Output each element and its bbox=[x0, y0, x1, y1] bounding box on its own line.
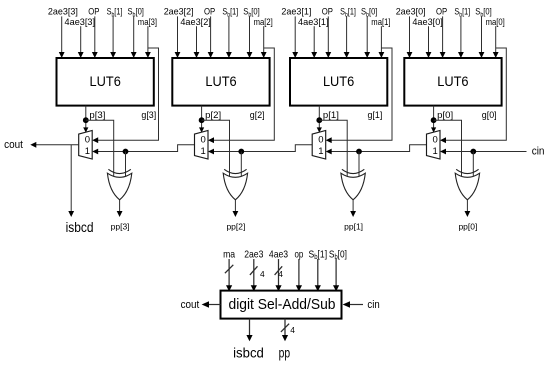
svg-text:OP: OP bbox=[204, 7, 215, 17]
wire 2ae3[1] into LUT6 input bbox=[292, 16, 298, 58]
wire OP into LUT6 input bbox=[440, 16, 446, 58]
wire ma[2] branch / g[2] to mux input 0 bbox=[208, 48, 274, 143]
mux (bit 3) bbox=[79, 131, 93, 160]
wire carry from bit 2 mux output to bit 3 mux input 1 bbox=[92, 145, 194, 155]
wire Sb[1] into LUT6 input bbox=[344, 16, 350, 58]
svg-text:4ae3[1]: 4ae3[1] bbox=[298, 17, 329, 27]
svg-text:Sb[1]: Sb[1] bbox=[454, 7, 470, 19]
wire OP into LUT6 input bbox=[325, 16, 331, 58]
wire ma[0] branch / g[0] to mux input 0 bbox=[440, 48, 506, 143]
junction carry to XOR (bit 0) bbox=[470, 149, 476, 155]
svg-text:cin: cin bbox=[367, 299, 379, 311]
junction p[0] bbox=[431, 117, 437, 123]
svg-text:g[3]: g[3] bbox=[141, 110, 156, 120]
svg-text:2ae3[2]: 2ae3[2] bbox=[164, 7, 194, 17]
wire carry from bit 0 mux output to bit 1 mux input 1 bbox=[326, 145, 427, 155]
wire 4ae3[3] into LUT6 input bbox=[78, 26, 84, 58]
wire ma[0] into LUT6 input bbox=[493, 26, 499, 58]
wire pp[1] from XOR output bbox=[350, 200, 356, 217]
svg-text:digit Sel-Add/Sub: digit Sel-Add/Sub bbox=[229, 296, 336, 313]
svg-text:0: 0 bbox=[433, 135, 438, 146]
LUT6 (bit 2) bbox=[172, 58, 269, 106]
wire 4ae3[2] into LUT6 input bbox=[194, 26, 200, 58]
svg-text:4: 4 bbox=[290, 325, 295, 335]
svg-text:Sb[1]: Sb[1] bbox=[107, 7, 123, 19]
junction carry to XOR (bit 1) bbox=[356, 149, 362, 155]
svg-text:g[2]: g[2] bbox=[250, 110, 265, 120]
wire ma[3] branch / g[3] to mux input 0 bbox=[92, 48, 158, 143]
mux (bit 0) bbox=[427, 131, 441, 160]
svg-text:0: 0 bbox=[318, 135, 323, 146]
wire Sb[0] into Sel-Add/Sub bbox=[333, 259, 339, 291]
wire ma[1] branch / g[1] to mux input 0 bbox=[326, 48, 392, 143]
wire cout from bit 3 mux output bbox=[30, 142, 78, 148]
svg-text:4ae3[0]: 4ae3[0] bbox=[412, 17, 443, 27]
svg-text:g[0]: g[0] bbox=[482, 110, 497, 120]
wire 4ae3 into Sel-Add/Sub bbox=[275, 259, 281, 291]
wire Sb[1] into LUT6 input bbox=[110, 16, 116, 58]
svg-text:pp[2]: pp[2] bbox=[226, 221, 245, 231]
wire ma[1] into LUT6 input bbox=[379, 26, 385, 58]
svg-text:pp[0]: pp[0] bbox=[458, 221, 477, 231]
wire Sb[0] into LUT6 input bbox=[247, 16, 253, 58]
wire carry from bit 1 mux output to bit 2 mux input 1 bbox=[208, 145, 312, 155]
mux (bit 1) bbox=[312, 131, 326, 160]
wire p[3] from LUT6 to mux select bbox=[83, 106, 88, 133]
svg-text:ma[0]: ma[0] bbox=[486, 17, 505, 27]
wire Sb[0] into LUT6 input bbox=[131, 16, 137, 58]
wire pp (bottom) bbox=[282, 319, 288, 342]
wire p[1] branch to XOR input bbox=[319, 120, 347, 176]
wire 4ae3[1] into LUT6 input bbox=[311, 26, 317, 58]
svg-text:ma[1]: ma[1] bbox=[371, 17, 390, 27]
wire Sb[1] into LUT6 input bbox=[226, 16, 232, 58]
svg-text:g[1]: g[1] bbox=[368, 110, 383, 120]
wire OP into LUT6 input bbox=[92, 16, 98, 58]
svg-text:4: 4 bbox=[260, 269, 265, 279]
svg-text:LUT6: LUT6 bbox=[90, 74, 121, 90]
svg-text:cin: cin bbox=[532, 146, 545, 158]
wire 2ae3[2] into LUT6 input bbox=[175, 16, 181, 58]
wire Sb[1] into Sel-Add/Sub bbox=[315, 259, 321, 291]
junction carry to XOR (bit 3) bbox=[123, 149, 129, 155]
svg-text:pp: pp bbox=[279, 344, 291, 360]
svg-text:OP: OP bbox=[88, 7, 99, 17]
wire ma[2] into LUT6 input bbox=[261, 26, 267, 58]
svg-text:4ae3[3]: 4ae3[3] bbox=[65, 17, 96, 27]
svg-text:p[2]: p[2] bbox=[205, 110, 221, 120]
svg-text:ma[3]: ma[3] bbox=[138, 17, 157, 27]
svg-text:cout: cout bbox=[181, 299, 200, 311]
LUT6 (bit 1) bbox=[290, 58, 387, 106]
svg-text:4: 4 bbox=[278, 269, 283, 279]
svg-text:p[1]: p[1] bbox=[323, 110, 339, 120]
svg-text:Sb[1]: Sb[1] bbox=[222, 7, 238, 19]
junction p[2] bbox=[199, 117, 205, 123]
svg-text:1: 1 bbox=[433, 146, 438, 157]
wire cout (bottom) bbox=[202, 301, 221, 308]
svg-text:isbcd: isbcd bbox=[233, 344, 264, 360]
wire ma into Sel-Add/Sub bbox=[226, 259, 232, 291]
wire Sb[1] into LUT6 input bbox=[458, 16, 464, 58]
svg-text:4ae3[2]: 4ae3[2] bbox=[180, 17, 211, 27]
junction p[3] bbox=[83, 117, 89, 123]
wire p[2] branch to XOR input bbox=[202, 120, 230, 176]
wire carry down to XOR input (bit 0) bbox=[472, 152, 474, 177]
wire isbcd branch bbox=[68, 145, 74, 217]
wire 2ae3 into Sel-Add/Sub bbox=[251, 259, 257, 291]
wire cin to bit 0 mux input 1 bbox=[440, 149, 527, 155]
wire carry down to XOR input (bit 2) bbox=[240, 152, 242, 177]
svg-text:LUT6: LUT6 bbox=[437, 74, 468, 90]
svg-text:2ae3[0]: 2ae3[0] bbox=[396, 7, 426, 17]
wire p[1] from LUT6 to mux select bbox=[317, 106, 322, 133]
wire p[3] branch to XOR input bbox=[86, 120, 114, 176]
wire pp[3] from XOR output bbox=[117, 200, 123, 217]
svg-text:pp[1]: pp[1] bbox=[344, 221, 363, 231]
junction p[1] bbox=[316, 117, 322, 123]
wire p[0] from LUT6 to mux select bbox=[431, 106, 436, 133]
wire pp[2] from XOR output bbox=[233, 200, 239, 217]
svg-text:ma[2]: ma[2] bbox=[254, 17, 273, 27]
wire isbcd (bottom) bbox=[246, 319, 252, 342]
XOR gate (bit 2) bbox=[223, 169, 247, 200]
wire p[0] branch to XOR input bbox=[434, 120, 462, 176]
svg-text:Sb[1]: Sb[1] bbox=[340, 7, 356, 19]
svg-text:p[3]: p[3] bbox=[89, 110, 105, 120]
wire op into Sel-Add/Sub bbox=[296, 259, 302, 291]
svg-text:pp[3]: pp[3] bbox=[111, 221, 130, 231]
svg-text:OP: OP bbox=[322, 7, 333, 17]
svg-text:0: 0 bbox=[201, 135, 206, 146]
svg-text:isbcd: isbcd bbox=[66, 220, 94, 235]
svg-text:LUT6: LUT6 bbox=[323, 74, 354, 90]
svg-text:cout: cout bbox=[4, 139, 23, 151]
svg-text:OP: OP bbox=[436, 7, 447, 17]
wire OP into LUT6 input bbox=[208, 16, 214, 58]
XOR gate (bit 1) bbox=[341, 169, 365, 200]
svg-text:1: 1 bbox=[85, 146, 90, 157]
svg-text:ma: ma bbox=[223, 250, 235, 261]
svg-text:op: op bbox=[295, 250, 304, 261]
svg-text:0: 0 bbox=[85, 135, 90, 146]
wire carry down to XOR input (bit 3) bbox=[125, 152, 127, 177]
XOR gate (bit 3) bbox=[107, 169, 131, 200]
wire 4ae3[0] into LUT6 input bbox=[426, 26, 432, 58]
wire pp[0] from XOR output bbox=[465, 200, 471, 217]
XOR gate (bit 0) bbox=[455, 169, 479, 200]
wire 2ae3[0] into LUT6 input bbox=[407, 16, 413, 58]
wire p[2] from LUT6 to mux select bbox=[199, 106, 204, 133]
svg-text:2ae3[1]: 2ae3[1] bbox=[281, 7, 311, 17]
mux (bit 2) bbox=[195, 131, 209, 160]
wire 2ae3[3] into LUT6 input bbox=[59, 16, 65, 58]
wire carry down to XOR input (bit 1) bbox=[358, 152, 360, 177]
svg-text:1: 1 bbox=[201, 146, 206, 157]
svg-text:2ae3: 2ae3 bbox=[244, 250, 263, 261]
wire Sb[0] into LUT6 input bbox=[479, 16, 485, 58]
bus slash pp width 4 bbox=[281, 324, 295, 335]
LUT6 (bit 3) bbox=[57, 58, 154, 106]
LUT6 (bit 0) bbox=[404, 58, 501, 106]
svg-text:LUT6: LUT6 bbox=[205, 74, 236, 90]
svg-text:1: 1 bbox=[318, 146, 323, 157]
wire ma[3] into LUT6 input bbox=[145, 26, 151, 58]
bus slash ma bbox=[225, 265, 233, 273]
svg-text:Sb[0]: Sb[0] bbox=[329, 250, 347, 262]
block digit Sel-Add/Sub bbox=[221, 291, 342, 319]
bus slash 4ae3 width 4 bbox=[275, 266, 284, 279]
wire Sb[0] into LUT6 input bbox=[364, 16, 370, 58]
wire cin (bottom) bbox=[343, 301, 363, 308]
bus slash 2ae3 width 4 bbox=[250, 266, 265, 279]
junction carry to XOR (bit 2) bbox=[238, 149, 244, 155]
svg-text:4ae3: 4ae3 bbox=[269, 250, 288, 261]
svg-text:p[0]: p[0] bbox=[437, 110, 453, 120]
svg-text:2ae3[3]: 2ae3[3] bbox=[48, 7, 78, 17]
